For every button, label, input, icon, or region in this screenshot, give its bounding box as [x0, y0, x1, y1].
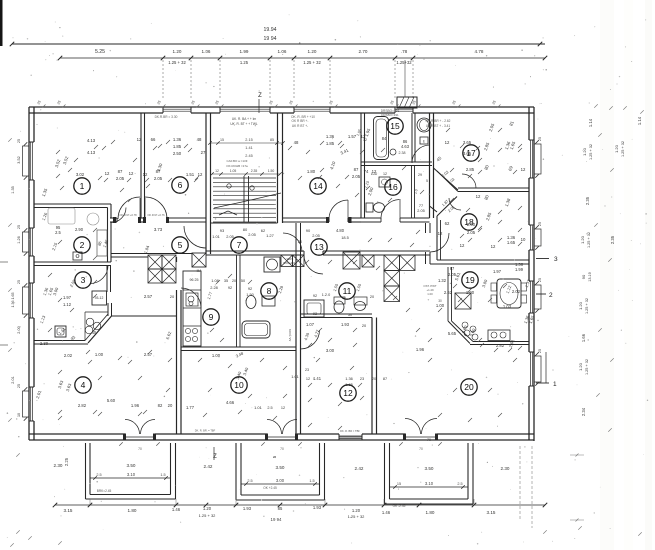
svg-text:2.82: 2.82: [78, 403, 87, 408]
bottom wall door jamb posts: [123, 434, 126, 441]
svg-text:1.20: 1.20: [308, 49, 317, 54]
svg-text:1.80: 1.80: [426, 510, 435, 515]
svg-text:1.25: 1.25: [240, 60, 249, 65]
wall room 14|bath 15 vertical: [360, 113, 362, 218]
svg-text:1.25 + 32: 1.25 + 32: [621, 141, 625, 157]
svg-text:OK.R.97.+0.78: OK.R.97.+0.78: [119, 213, 137, 217]
svg-text:2.38: 2.38: [399, 151, 406, 155]
svg-text:1.80: 1.80: [128, 508, 137, 513]
room circle 11: [339, 283, 355, 299]
svg-text:1.5: 1.5: [160, 473, 165, 477]
svg-text:1.12: 1.12: [63, 302, 72, 307]
svg-text:3.52: 3.52: [17, 156, 21, 163]
svg-text:1.99: 1.99: [240, 49, 249, 54]
svg-text:70: 70: [280, 447, 284, 451]
svg-text:3.65: 3.65: [463, 140, 472, 145]
svg-text:12: 12: [129, 171, 134, 176]
svg-text:1.03: 1.03: [503, 304, 512, 309]
wall room 6|stairwell vertical thick: [205, 113, 207, 254]
room 2 round table light: [87, 213, 99, 225]
svg-text:DK. R. BR = TBF: DK. R. BR = TBF: [340, 429, 360, 433]
svg-text:2.02: 2.02: [512, 289, 521, 294]
wall rooms 3|4 horizontal: [34, 340, 85, 342]
svg-text:70: 70: [427, 438, 431, 442]
room circle 17: [463, 145, 479, 161]
room circle 1: [74, 178, 90, 194]
svg-text:4.80: 4.80: [336, 228, 345, 233]
svg-text:2.45: 2.45: [245, 154, 252, 158]
room 3 kitchen counter line: [85, 312, 108, 340]
wall rooms 2|1 horizontal: [34, 203, 111, 205]
svg-text:2.90: 2.90: [75, 227, 84, 232]
balcony middle walls: [235, 443, 237, 500]
svg-text:1.00: 1.00: [427, 292, 433, 296]
svg-text:1.20: 1.20: [352, 508, 361, 513]
svg-text:3.00: 3.00: [276, 478, 285, 483]
balcony right inner dimension line: [390, 486, 469, 488]
svg-text:14: 14: [313, 181, 323, 191]
svg-text:25: 25: [17, 139, 21, 143]
room 19 dining table and chairs: [497, 279, 521, 308]
svg-text:1.65: 1.65: [345, 382, 353, 387]
svg-text:1.25 + 32: 1.25 + 32: [589, 144, 593, 160]
svg-text:90: 90: [581, 274, 586, 279]
svg-text:12: 12: [521, 167, 526, 172]
kitchen x-squares pair right of sink: [281, 255, 293, 267]
svg-text:25: 25: [17, 384, 21, 388]
room 1 tick marks: [94, 145, 98, 149]
bath 11 shower single x: [343, 252, 360, 269]
svg-text:1.65: 1.65: [507, 240, 516, 245]
wall room 18 bottom | room 19 top: [437, 259, 529, 261]
balcony door 70 ticks: [119, 442, 123, 446]
svg-text:OK.R.97.+0.76: OK.R.97.+0.76: [147, 213, 165, 217]
svg-text:1.46: 1.46: [172, 507, 181, 512]
balcony door arcs room 20: [405, 419, 421, 435]
svg-text:12: 12: [383, 172, 387, 176]
bath 16 toilet tank: [366, 203, 373, 212]
svg-text:1.41: 1.41: [245, 146, 252, 150]
svg-text:1.66: 1.66: [581, 333, 586, 342]
svg-text:4.13: 4.13: [87, 150, 96, 155]
room 20 ticks: [458, 298, 462, 302]
svg-text:3: 3: [81, 275, 86, 285]
wall bath 15|16 horizontal: [361, 161, 432, 163]
svg-text:1.07: 1.07: [306, 322, 315, 327]
svg-text:92: 92: [248, 286, 252, 291]
svg-text:1.25+32: 1.25+32: [396, 60, 412, 65]
svg-text:12: 12: [476, 194, 481, 199]
svg-text:12: 12: [137, 137, 142, 142]
svg-text:1.85: 1.85: [173, 144, 182, 149]
svg-text:87: 87: [383, 377, 387, 381]
entrance door arc stair to hall 7: [283, 233, 302, 252]
corridor 5 wall bottom / room 4 top right part: [112, 315, 177, 317]
svg-text:1.36: 1.36: [345, 376, 353, 381]
kitchen 9 sink basins: [186, 293, 198, 306]
room circle 19: [462, 272, 478, 288]
svg-text:77: 77: [419, 204, 423, 208]
svg-text:1.32: 1.32: [438, 278, 447, 283]
svg-text:48: 48: [197, 137, 202, 142]
svg-text:8: 8: [267, 286, 272, 296]
door arc into room 12: [301, 330, 320, 349]
svg-text:1.25 + 32: 1.25 + 32: [587, 232, 591, 248]
svg-text:19 94: 19 94: [264, 36, 277, 42]
svg-text:18.5: 18.5: [341, 235, 349, 240]
bottom exterior wall inner line segments: [29, 433, 125, 435]
svg-text:1.99: 1.99: [515, 267, 524, 272]
svg-text:50: 50: [348, 313, 352, 317]
svg-text:2.25: 2.25: [64, 457, 69, 466]
svg-text:1.96: 1.96: [131, 403, 140, 408]
svg-text:3.15: 3.15: [64, 508, 73, 513]
svg-text:62: 62: [445, 221, 450, 226]
svg-text:1.77: 1.77: [186, 405, 195, 410]
left exterior wall outer line: [28, 107, 30, 440]
svg-text:12: 12: [491, 244, 496, 249]
svg-text:1.93: 1.93: [243, 506, 252, 511]
svg-text:11: 11: [343, 286, 352, 296]
svg-text:19.94: 19.94: [264, 27, 277, 33]
top exterior wall inner line segments: [29, 112, 163, 114]
svg-text:1.46: 1.46: [382, 510, 391, 515]
svg-text:4.13: 4.13: [87, 138, 96, 143]
stairwell bottom wall: [211, 222, 278, 224]
corridor 5 wardrobe x-squares: [148, 255, 162, 269]
svg-text:DK.R.BR = 3.30: DK.R.BR = 3.30: [155, 115, 178, 119]
svg-text:1.5: 1.5: [309, 479, 314, 483]
wall bath 15 inner divider: [411, 113, 413, 162]
svg-text:1.05: 1.05: [230, 169, 237, 173]
svg-text:UK R BT + - 3.41: UK R BT + - 3.41: [426, 124, 451, 128]
svg-text:10: 10: [521, 237, 526, 242]
kitchen 9 counter strip: [183, 271, 201, 346]
top wall window glazing: [163, 108, 191, 110]
svg-text:1.36: 1.36: [326, 134, 335, 139]
room 14 ticks: [320, 141, 324, 145]
level marker 1: [536, 382, 549, 384]
svg-text:9: 9: [209, 312, 214, 322]
door arc room 6: [145, 197, 167, 219]
top exterior wall outer line: [29, 106, 534, 108]
bottom dimension line: [55, 504, 545, 506]
bath 15 tub: [374, 117, 389, 160]
room 2 small box symbol: [73, 252, 82, 260]
wall left apartment | middle apartment vertical: [176, 290, 178, 434]
svg-text:87: 87: [156, 169, 161, 174]
room 12 ticks: [318, 328, 322, 332]
svg-text:2: 2: [80, 240, 85, 250]
door arc room 3: [90, 266, 108, 284]
door arc into room 11: [304, 255, 323, 274]
svg-text:85: 85: [278, 506, 283, 511]
room 17 chamfer inner line: [437, 171, 458, 192]
corridor 5 south wall: [111, 253, 192, 255]
svg-text:OK R BR +-: OK R BR +-: [292, 119, 309, 123]
wall room 2 east vertical: [107, 208, 109, 263]
svg-text:12: 12: [198, 172, 203, 177]
right wall window glazing and sills: [530, 140, 532, 178]
svg-text:2.05: 2.05: [154, 176, 163, 181]
bath 16 washing machine: [379, 177, 390, 187]
svg-text:1.20: 1.20: [582, 147, 587, 156]
svg-text:1.93: 1.93: [313, 505, 322, 510]
svg-text:3.15: 3.15: [487, 510, 496, 515]
corridor 13 east end wall: [425, 223, 427, 233]
svg-text:10: 10: [17, 413, 21, 417]
room 2 wardrobe: [97, 230, 107, 256]
room circle 15: [387, 118, 403, 134]
room circle 5: [172, 237, 188, 253]
room 2 bed furniture light: [48, 208, 75, 224]
svg-text:1.14: 1.14: [637, 116, 642, 125]
room circle 18: [461, 214, 477, 230]
svg-text:UK. R. BA + + Im: UK. R. BA + + Im: [232, 117, 257, 121]
svg-text:2.28: 2.28: [210, 285, 218, 290]
kitchen sink unit with circle: [264, 257, 280, 272]
door arc into room 17: [462, 174, 476, 188]
entry door arc apartment 3: [430, 233, 449, 252]
svg-text:20: 20: [372, 377, 376, 381]
svg-text:1: 1: [553, 381, 557, 388]
bath 8 tub: [242, 321, 270, 338]
door arc room 1: [118, 197, 140, 219]
svg-text:3.50: 3.50: [127, 463, 136, 468]
svg-text:25: 25: [538, 222, 542, 226]
svg-text:13: 13: [314, 242, 324, 252]
wall room 18 west vertical: [436, 216, 438, 260]
svg-text:2.62: 2.62: [444, 290, 453, 295]
extra dimension slash ticks scattered: [102, 146, 106, 150]
kitchen 19 stove burners: [462, 322, 468, 328]
svg-text:1.85: 1.85: [326, 141, 335, 146]
svg-text:4.63: 4.63: [401, 144, 410, 149]
stair landing dim line: [210, 142, 283, 144]
svg-text:12: 12: [363, 138, 367, 142]
balcony middle inner dimension line: [241, 483, 319, 485]
svg-text:2.35: 2.35: [585, 196, 590, 205]
room 3 sink square: [55, 326, 66, 337]
svg-text:2.00: 2.00: [17, 326, 21, 333]
svg-text:2.02: 2.02: [64, 353, 73, 358]
svg-text:27: 27: [201, 150, 206, 155]
svg-text:2.82: 2.82: [496, 343, 505, 348]
stairwell treads: [213, 177, 276, 179]
svg-text:5.60: 5.60: [107, 398, 116, 403]
svg-text:4.66: 4.66: [226, 400, 235, 405]
room circle 20: [461, 379, 477, 395]
room circle 16: [385, 179, 401, 195]
svg-text:92: 92: [313, 294, 317, 298]
svg-text:50: 50: [241, 279, 245, 283]
svg-text:82: 82: [158, 403, 163, 408]
wall rooms 17|18 horizontal: [458, 187, 529, 189]
svg-text:3.50: 3.50: [425, 466, 434, 471]
svg-text:2.42: 2.42: [204, 464, 213, 469]
svg-text:1.41: 1.41: [313, 376, 322, 381]
bath 16 toilet bowl: [374, 203, 385, 213]
svg-text:2.35: 2.35: [610, 235, 615, 244]
svg-text:67: 67: [450, 266, 455, 271]
svg-text:CAF.BO a =13F: CAF.BO a =13F: [226, 159, 247, 163]
svg-text:3.02: 3.02: [76, 172, 85, 177]
svg-text:70: 70: [419, 447, 423, 451]
wall baths 15/16 | room 17 vertical thick: [429, 113, 431, 218]
svg-text:1: 1: [80, 181, 85, 191]
svg-text:3: 3: [554, 256, 558, 263]
svg-text:20: 20: [298, 240, 302, 244]
svg-text:1.26: 1.26: [17, 236, 21, 243]
svg-text:2.01: 2.01: [11, 376, 15, 383]
hall x pair: [362, 255, 374, 267]
svg-text:15: 15: [390, 121, 400, 131]
svg-text:84: 84: [382, 136, 387, 141]
svg-text:3.50: 3.50: [276, 465, 285, 470]
room circle 12: [340, 385, 356, 401]
svg-text:23: 23: [360, 377, 364, 381]
svg-text:12: 12: [143, 172, 148, 177]
svg-text:2.57: 2.57: [144, 352, 153, 357]
room circle 3: [75, 272, 91, 288]
level marker 2: [536, 293, 546, 295]
svg-text:1.20: 1.20: [580, 235, 585, 244]
balcony left walls: [85, 443, 87, 499]
wall room 14 bottom with door: [283, 217, 330, 219]
svg-text:70: 70: [138, 447, 142, 451]
stairwell diagonal direction line: [242, 193, 281, 202]
svg-text:25: 25: [17, 225, 21, 229]
svg-text:E: E: [423, 140, 425, 144]
svg-text:1.27: 1.27: [266, 233, 275, 238]
svg-text:2.35: 2.35: [251, 169, 258, 173]
extension dashed lines from top dimension to building: [162, 60, 164, 100]
room 3 east wall and closet: [106, 266, 108, 292]
svg-text:20: 20: [168, 403, 173, 408]
svg-text:5: 5: [178, 240, 183, 250]
svg-text:87: 87: [354, 167, 359, 172]
svg-text:2.5: 2.5: [267, 406, 272, 410]
svg-text:2.30: 2.30: [501, 466, 510, 471]
svg-text:2.5: 2.5: [55, 230, 61, 235]
svg-text:3.10: 3.10: [127, 472, 136, 477]
svg-text:2.5: 2.5: [247, 479, 252, 483]
top dimension line row 2: [60, 57, 545, 59]
svg-text:25: 25: [538, 137, 542, 141]
wall rooms 8,11 | corridor vertical thick: [295, 223, 297, 257]
svg-text:1.06: 1.06: [278, 49, 287, 54]
svg-text:1.50: 1.50: [268, 169, 275, 173]
bottom wall openings sill lines: [125, 436, 155, 438]
balcony left inner dimension line: [90, 477, 170, 479]
stairwell bottom chevron: [219, 211, 228, 215]
diagonal corridor wall to room 17: [434, 168, 459, 190]
room circle 9: [203, 309, 219, 325]
room circle 2: [74, 237, 90, 253]
wall stairwell|room 14 vertical thick: [277, 113, 279, 223]
svg-text:5: 5: [426, 179, 428, 183]
svg-text:48: 48: [294, 140, 299, 145]
room circle 8: [261, 283, 277, 299]
svg-text:1.96: 1.96: [416, 347, 425, 352]
door jambs rooms 1 and 6: [116, 218, 118, 222]
door arc room 14: [329, 200, 348, 219]
svg-text:87: 87: [118, 169, 123, 174]
stairwell center rail: [243, 176, 245, 222]
svg-text:1.20: 1.20: [173, 49, 182, 54]
wall rooms 9|8 vertical: [236, 255, 238, 347]
svg-text:2.05: 2.05: [248, 232, 256, 237]
svg-text:19: 19: [465, 275, 475, 285]
svg-text:1.00: 1.00: [466, 290, 475, 295]
left edge level marks: [0, 261, 8, 263]
scan edge artifact top-left: [0, 0, 3, 46]
svg-text:45: 45: [92, 330, 97, 335]
svg-text:DRSBO=191: DRSBO=191: [381, 109, 400, 113]
svg-text:1.25 + 32: 1.25 + 32: [585, 359, 589, 375]
svg-text:15: 15: [220, 138, 224, 142]
wall rooms 1 and 6 bottom horizontal with door openings: [110, 217, 117, 219]
wall rooms 11|12 horizontal: [301, 313, 373, 315]
bottom wall small window glazing room 12: [339, 435, 362, 437]
room 3 diagonal kitchen bay wall: [88, 316, 112, 343]
svg-text:92: 92: [313, 311, 317, 316]
svg-text:1.20: 1.20: [203, 506, 212, 511]
level marker 3: [536, 258, 549, 260]
wall rooms 9,10|11,12 vertical thick: [295, 255, 297, 434]
wall hall | kitchen 19 vertical: [447, 267, 449, 321]
svg-text:.78: .78: [401, 49, 408, 54]
room 4 ticks: [88, 360, 92, 364]
svg-text:1.36 1.65: 1.36 1.65: [11, 293, 15, 308]
kitchen 9 stove burners: [185, 328, 190, 333]
svg-text:2.90: 2.90: [467, 222, 476, 227]
svg-text:1.97: 1.97: [63, 295, 72, 300]
svg-text:1.20: 1.20: [578, 301, 583, 310]
bath 8 toilet: [246, 296, 256, 309]
svg-text:1.80: 1.80: [307, 169, 316, 174]
svg-text:AA.T.KRN: AA.T.KRN: [288, 329, 292, 342]
room circle 13: [311, 239, 327, 255]
left wall window glazing: [30, 142, 32, 180]
door jamb posts dark blobs: [113, 217, 116, 223]
svg-text:OK. R. BR + +10: OK. R. BR + +10: [291, 115, 315, 119]
svg-text:1.20: 1.20: [578, 362, 583, 371]
chimney block above top wall: [397, 97, 417, 108]
svg-text:2.5: 2.5: [96, 473, 101, 477]
kitchen 19 corner counter x-square: [455, 293, 471, 309]
svg-text:2.30: 2.30: [54, 463, 63, 468]
kitchen 19 counter front edge: [473, 341, 529, 343]
door arc into room 18: [449, 198, 461, 210]
svg-text:85: 85: [270, 138, 274, 142]
svg-text:6: 6: [178, 180, 183, 190]
svg-text:5.25: 5.25: [95, 49, 105, 55]
svg-text:12: 12: [445, 140, 450, 145]
right exterior wall outer line: [533, 107, 535, 441]
svg-text:92: 92: [228, 286, 232, 290]
door jamb corridor 13 opening: [303, 251, 305, 255]
svg-text:93-12: 93-12: [95, 296, 104, 300]
balcony corner extension lines: [89, 499, 91, 505]
svg-text:4: 4: [81, 380, 86, 390]
svg-text:1.51: 1.51: [186, 172, 195, 177]
right exterior wall inner line segments: [528, 107, 530, 140]
svg-text:2.05: 2.05: [352, 174, 361, 179]
svg-text:2.05: 2.05: [312, 233, 320, 238]
svg-text:2.42: 2.42: [355, 466, 364, 471]
svg-text:2.85: 2.85: [466, 167, 475, 172]
